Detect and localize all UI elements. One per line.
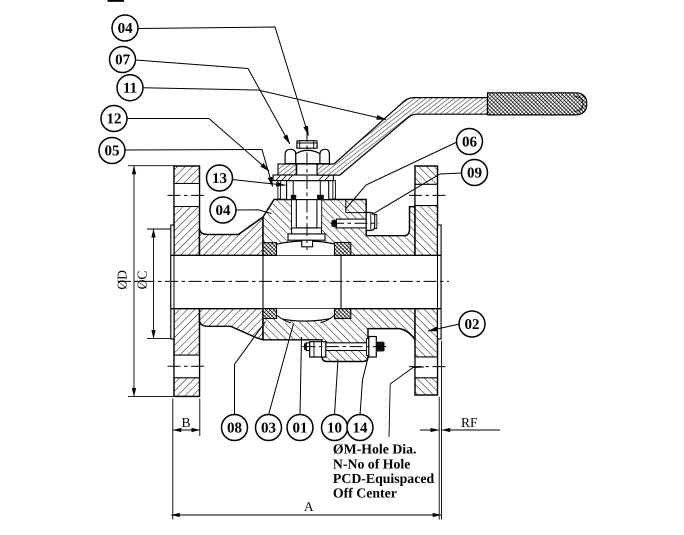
- svg-text:07: 07: [115, 52, 131, 68]
- balloon 04: [112, 15, 138, 41]
- svg-text:A: A: [304, 499, 314, 514]
- svg-text:N-No of Hole: N-No of Hole: [333, 456, 410, 471]
- balloon 05: [99, 138, 125, 164]
- balloon 08: [222, 415, 248, 441]
- cropped mark at top edge: [108, 0, 125, 2]
- balloon 12: [101, 106, 127, 132]
- svg-text:05: 05: [105, 143, 120, 159]
- bolt 09 centerline: [331, 222, 379, 224]
- leader 05: [125, 150, 273, 187]
- left flange bottom bolt hole: [175, 355, 199, 378]
- stud left nut: [310, 342, 326, 357]
- main bore centerline: [118, 280, 449, 282]
- right flange bottom bolt hole: [416, 357, 437, 378]
- svg-text:02: 02: [464, 317, 479, 333]
- leader 12: [127, 119, 270, 172]
- handle plate left: [278, 164, 296, 175]
- balloon 07: [110, 47, 136, 73]
- main body casting, right piece: [263, 200, 415, 362]
- leader 10: [335, 360, 339, 416]
- svg-text:ØC: ØC: [134, 271, 149, 290]
- svg-text:06: 06: [462, 135, 478, 151]
- stud 10 centerline: [303, 346, 388, 348]
- gland stud left: [278, 181, 281, 199]
- svg-text:Off Center: Off Center: [333, 485, 397, 500]
- gland: [287, 181, 329, 200]
- stem collar: [292, 228, 322, 234]
- balloon 01: [287, 415, 313, 441]
- left flange raised face RF: [171, 225, 174, 339]
- bolt 09 thread end: [332, 220, 337, 228]
- dim OC line: [153, 229, 155, 338]
- seat ring upper-left: [263, 243, 277, 256]
- dim RF arrows: [420, 429, 439, 431]
- svg-text:ØD: ØD: [114, 270, 129, 290]
- svg-text:ØM-Hole Dia.: ØM-Hole Dia.: [333, 441, 417, 456]
- ball top cap: [277, 241, 335, 255]
- flange bolt hole centerlines: [168, 194, 208, 196]
- svg-text:01: 01: [292, 420, 307, 436]
- body joint block at stem boss: [346, 200, 366, 213]
- body side bolt 09: shaft: [337, 219, 367, 228]
- hole note leader: [389, 367, 424, 437]
- stem tang into ball: [302, 240, 313, 247]
- right flange: [415, 166, 438, 395]
- dim B line: [173, 429, 200, 431]
- dimension labels: [114, 270, 478, 514]
- leader 09: [372, 173, 462, 215]
- leader 11: [143, 88, 386, 120]
- dim A line: [171, 514, 441, 516]
- stem column: [296, 181, 317, 228]
- stud right nut 14: [369, 337, 377, 358]
- stem hex nut: [285, 149, 329, 164]
- leader 02: [428, 324, 460, 331]
- left flange (end connection): [174, 166, 200, 396]
- ball bottom cap: [277, 309, 335, 321]
- leader 01: [300, 337, 302, 415]
- bolt 09 hex head: [366, 213, 375, 231]
- svg-text:09: 09: [467, 166, 482, 182]
- balloon 11: [117, 75, 143, 101]
- stem lower disc pocket: [288, 234, 325, 240]
- leader 04 lower: [236, 210, 272, 214]
- stem centerline: [306, 129, 308, 250]
- svg-text:13: 13: [212, 171, 227, 187]
- flange end-face edges across bore: [171, 255, 441, 308]
- body end-piece (insert) neck, left: [200, 217, 264, 340]
- balloon 09: [462, 160, 488, 186]
- svg-text:PCD-Equispaced: PCD-Equispaced: [333, 471, 435, 486]
- bottom stud 10: shaft: [306, 343, 384, 351]
- right flange top bolt hole: [416, 184, 437, 205]
- balloon 14: [347, 415, 373, 441]
- balloon 10: [322, 415, 348, 441]
- packing strip left: [292, 200, 297, 228]
- svg-text:10: 10: [327, 420, 342, 436]
- svg-text:04: 04: [216, 203, 232, 219]
- stud left end: [304, 343, 306, 350]
- dim OD line: [133, 166, 135, 397]
- leader 08: [235, 322, 266, 416]
- packing strip right: [317, 200, 322, 228]
- balloon 03: [256, 415, 282, 441]
- stud right washer: [367, 339, 369, 356]
- seat relief wedge lower-left: [277, 315, 291, 323]
- balloon 06: [457, 129, 483, 155]
- body/insert joint line: [262, 236, 264, 339]
- left flange top bolt hole: [175, 184, 199, 207]
- leader 07: [135, 60, 289, 144]
- svg-text:B: B: [181, 415, 190, 430]
- stem square through plate: [297, 164, 317, 175]
- body seat-retainer joint line: [340, 243, 342, 319]
- svg-text:11: 11: [123, 81, 137, 97]
- packing wedge right: [317, 195, 324, 200]
- right flange raised face RF: [438, 225, 442, 339]
- svg-text:14: 14: [352, 421, 368, 437]
- stem top square nut: [297, 141, 317, 149]
- seat ring lower-right: [335, 309, 351, 319]
- stud thread end: [376, 342, 383, 352]
- svg-text:12: 12: [107, 111, 122, 127]
- stem washer plate: [273, 175, 333, 181]
- bore (flow passage): [171, 255, 441, 308]
- gland stud right: [333, 181, 336, 199]
- leader 13: [232, 180, 286, 186]
- packing wedge left: [291, 195, 296, 200]
- leader 04 top: [138, 27, 309, 136]
- handle grip: [488, 93, 587, 115]
- seat ring upper-right: [335, 243, 351, 256]
- dim B extension lines: [173, 399, 200, 520]
- dim OD extension lines: [128, 166, 174, 397]
- bolt 09 washer: [375, 215, 377, 229]
- balloon 04 lower: [210, 197, 236, 223]
- balloon 13: [207, 165, 233, 191]
- dim OC extension lines: [147, 229, 171, 338]
- balloon 02: [459, 311, 485, 337]
- leader 14: [360, 358, 368, 416]
- svg-text:RF: RF: [461, 415, 478, 430]
- leader 03: [269, 324, 294, 416]
- dim A extension lines: [439, 341, 441, 520]
- svg-text:04: 04: [118, 21, 134, 37]
- svg-text:03: 03: [261, 420, 276, 436]
- svg-text:08: 08: [227, 420, 242, 436]
- leader 06: [347, 142, 458, 208]
- seat relief wedge lower-right: [321, 315, 335, 323]
- handle lever: [317, 98, 487, 176]
- seat ring lower-left: [263, 309, 277, 319]
